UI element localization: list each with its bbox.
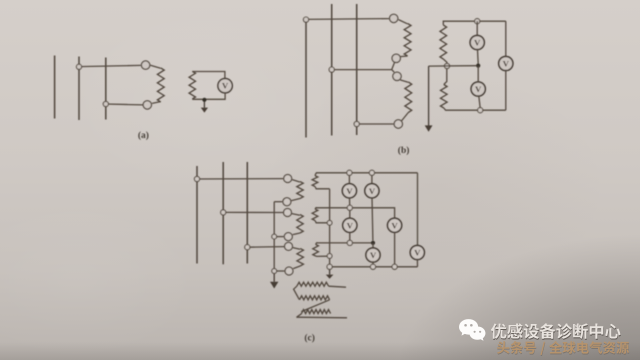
figure (c) bus line L3 [246, 162, 248, 264]
node on secondary neutral at S3 [327, 254, 332, 259]
node on primary neutral lower [272, 269, 277, 274]
voltmeter PV1 of (b) [470, 35, 484, 49]
wire: rail3 dot to PV5 [372, 243, 374, 248]
figure (c) bus line L1 [196, 166, 198, 264]
wire: phase B to junction [334, 69, 391, 71]
voltmeter PV4 of (c) [388, 218, 402, 232]
wire: FU1 to winding P1 top [292, 180, 300, 182]
node on bus L2 of (c) [221, 210, 226, 215]
wire: winding P1 bottom to fuse FU2 [291, 199, 300, 201]
primary ground arrow of (c) [270, 274, 278, 289]
wire: phase C to fuse FU5 of (c) [247, 246, 284, 249]
fuse FU2 of (c) [283, 198, 291, 206]
node at neutral to rail4 [327, 264, 332, 269]
wire: top rail to PV1 [476, 21, 478, 35]
wire: rail1 corner down right side of (c) [417, 173, 419, 246]
voltmeter PV6 of (c) [410, 245, 424, 259]
secondary winding S2 of (c) [312, 209, 318, 221]
ground symbol of figure (a) [201, 102, 208, 113]
fuse FU1 of (c) [284, 175, 292, 183]
secondary winding b of (b) [441, 85, 448, 109]
wire: L3 tap to fuse FU2 [106, 103, 143, 106]
node on bus L1 [303, 17, 308, 22]
figure (b) bus line L2 [331, 4, 333, 136]
wire: S1 top to rail 1 [315, 173, 317, 176]
secondary winding S1 of (c) [312, 176, 318, 187]
wire: fuse FU1 to winding W1 top [150, 65, 160, 68]
voltmeter PV1 [218, 79, 232, 93]
figure (b) bus line L3 [356, 4, 358, 135]
wire: fuse FU1 to winding W1 top [399, 20, 408, 24]
junction dot on mid rail [476, 64, 480, 68]
wire: phase C to fuse FU4 [357, 123, 394, 125]
voltmeter PV2 of (c) [365, 184, 379, 198]
wire: FU2 to neutral [274, 201, 282, 203]
wire: winding a top along top rail [443, 21, 506, 25]
wire: rail1 to PV1 of (c) [348, 175, 350, 183]
rail 4 of (c) [332, 266, 417, 268]
svg-text:(c): (c) [304, 333, 315, 344]
secondary winding S3 of (c) [313, 244, 319, 256]
node on rail1 at PV2 [369, 170, 374, 175]
wire: winding W2 top to voltmeter PV1 [192, 72, 225, 79]
primary winding P1 of (c) [297, 182, 303, 199]
node on rail4 at PV5 [370, 264, 375, 269]
earthing conductor of (b) [428, 66, 430, 126]
primary winding W2 of (b) [405, 82, 412, 113]
wire: PV4 to rail4 node [394, 232, 396, 264]
wire: mid dot to PV2 [477, 66, 479, 82]
fuse FU2 [143, 101, 151, 109]
node on secondary neutral at S2 [327, 220, 332, 225]
secondary ground arrow of (c) [326, 269, 334, 278]
voltmeter PV3 of (b) [499, 56, 513, 70]
wire: winding P3 bottom to fuse FU6 [293, 266, 300, 269]
node on bus L1 of (c) [194, 176, 199, 181]
fuse FU5 of (c) [285, 242, 293, 250]
wire: D3 left hook [297, 314, 302, 318]
rail 1 of (c) [316, 172, 418, 174]
svg-text:(b): (b) [398, 145, 410, 156]
junction dot on rail3 [371, 241, 375, 245]
rail 3 of (c) [317, 242, 373, 244]
fuse FU4 of (c) [284, 233, 292, 241]
node on bus L2 of (b) [329, 67, 334, 72]
rail 2 of (c) [316, 208, 395, 219]
svg-text:(a): (a) [138, 130, 149, 141]
secondary winding a of (b) [440, 25, 447, 59]
wire: winding b top to mid node [444, 69, 447, 85]
node on bus L3 of (c) [245, 245, 250, 250]
fuse FU1 [141, 61, 149, 69]
node on rail3 at PV3 [347, 240, 352, 245]
svg-text:V: V [346, 186, 353, 196]
svg-text:V: V [370, 250, 377, 260]
wire: PV1 to mid dot [477, 50, 480, 64]
wire: winding W1 bottom to fuse FU2 [400, 55, 407, 58]
fuse FU3 of (c) [284, 209, 292, 217]
wire: FU4 to neutral [274, 236, 284, 238]
voltmeter PV1 of (c) [342, 184, 356, 198]
wire: PV3 to rail3 node [349, 232, 351, 240]
figure (b) bus line L1 [305, 17, 307, 138]
wire: L2 tap to fuse FU1 [79, 65, 141, 66]
figure (a) bus line L3 [105, 58, 107, 120]
svg-text:V: V [222, 81, 229, 91]
node on top rail of (b) [475, 19, 480, 24]
open-delta winding D3 [301, 310, 330, 314]
node on bus L2 [76, 64, 81, 69]
wire: open-delta bottom terminal [296, 316, 347, 319]
wire: phase B to fuse FU3 of (c) [223, 211, 283, 213]
primary winding W1 of (b) [404, 24, 411, 57]
wire: top rail down right side [505, 21, 507, 56]
fuse FU2 of (b) [392, 54, 400, 62]
wire: PV2 down to rail3 dot [371, 198, 374, 241]
wire: phase A to fuse FU1 [306, 18, 389, 21]
svg-text:V: V [414, 247, 421, 257]
node on rail4 at PV4 [392, 264, 397, 269]
wire: bottom rail of (b) [444, 108, 506, 110]
wire: D1 left hook to D2 [294, 286, 300, 299]
wire: FU3 to winding P2 top [292, 214, 300, 216]
wire: winding a bottom to mid node [443, 59, 447, 64]
node on bottom rail of (b) [478, 108, 483, 113]
wire: PV1 to rail2 node [349, 198, 351, 205]
open-delta winding D2 [300, 296, 330, 300]
wire: fuse FU2 to winding W1 bottom [152, 102, 160, 104]
wire: PV2 to bottom rail [479, 96, 480, 108]
node on bus L3 of (b) [354, 121, 359, 126]
voltmeter PV5 of (c) [366, 248, 380, 262]
voltmeter PV3 of (c) [343, 218, 357, 232]
wire: PV6 to rail4 [416, 260, 418, 267]
fuse FU4 of (b) [394, 120, 402, 128]
node on primary neutral upper [272, 234, 277, 239]
mid node of (b) secondary [444, 63, 449, 68]
primary winding P3 of (c) [297, 249, 303, 267]
primary winding P2 of (c) [297, 215, 303, 234]
wire: voltmeter PV1 bottom to winding W2 bottom [192, 93, 225, 99]
node on rail2 at PV1 [347, 205, 352, 210]
wire: S2 top to rail 2 [315, 208, 317, 209]
wire: PV5 to rail4 node [372, 262, 374, 264]
wire: D1 right terminal [329, 286, 346, 287]
wire: S3 top to rail 3 [316, 243, 318, 245]
wire: junction to fuse FU3 [392, 70, 395, 73]
wire: mid rail to meter tap [429, 65, 477, 67]
wire: rail2 node to PV3 [349, 210, 351, 218]
figure (a) bus line L1 [54, 56, 56, 119]
wire: S1 bottom to secondary neutral [315, 187, 330, 189]
wire: fuse FU2 to phase B node [392, 63, 395, 70]
svg-text:V: V [391, 220, 398, 230]
wire: phase A to fuse FU1 of (c) [197, 178, 283, 180]
junction dot on secondary return [202, 98, 206, 102]
svg-text:V: V [347, 220, 354, 230]
wire: fuse FU3 to winding W2 top [400, 80, 408, 82]
secondary neutral of (c) [329, 189, 331, 265]
wire: winding W2 bottom to fuse FU4 [401, 113, 408, 122]
wire: winding P2 bottom to fuse FU4 [293, 233, 300, 235]
figure (c) bus line L2 [222, 162, 224, 264]
svg-text:V: V [475, 84, 482, 94]
primary neutral conductor of (c) [273, 202, 275, 274]
wire: rail1 to PV2 of (c) [371, 175, 373, 183]
wire: FU6 to neutral [274, 270, 284, 272]
watermark chat-bubble icon [458, 318, 489, 344]
primary winding W1 [157, 68, 164, 102]
wire: S2 bottom to neutral [315, 221, 327, 223]
watermark title text: vectorized [491, 323, 630, 356]
wire: S3 bottom to neutral [316, 255, 328, 257]
open-delta winding D1 [297, 282, 329, 286]
secondary winding W2 [189, 71, 195, 99]
svg-text:V: V [369, 186, 376, 196]
wire: PV3 to bottom rail [505, 71, 507, 111]
wire: D2 right to D3 left diagonal [301, 300, 329, 312]
fuse FU1 of (b) [390, 14, 398, 22]
node on rail1 at PV1 [347, 170, 352, 175]
svg-text:V: V [474, 37, 481, 47]
wire: FU5 to winding P3 top [293, 248, 300, 250]
voltmeter PV2 of (b) [471, 82, 485, 96]
fuse FU6 of (c) [285, 267, 293, 275]
figure (a) bus line L2 [78, 57, 80, 121]
ground arrow of (b) [425, 125, 433, 131]
node on bus L3 [103, 101, 108, 106]
fuse FU3 of (b) [393, 72, 401, 80]
svg-text:V: V [503, 58, 510, 68]
